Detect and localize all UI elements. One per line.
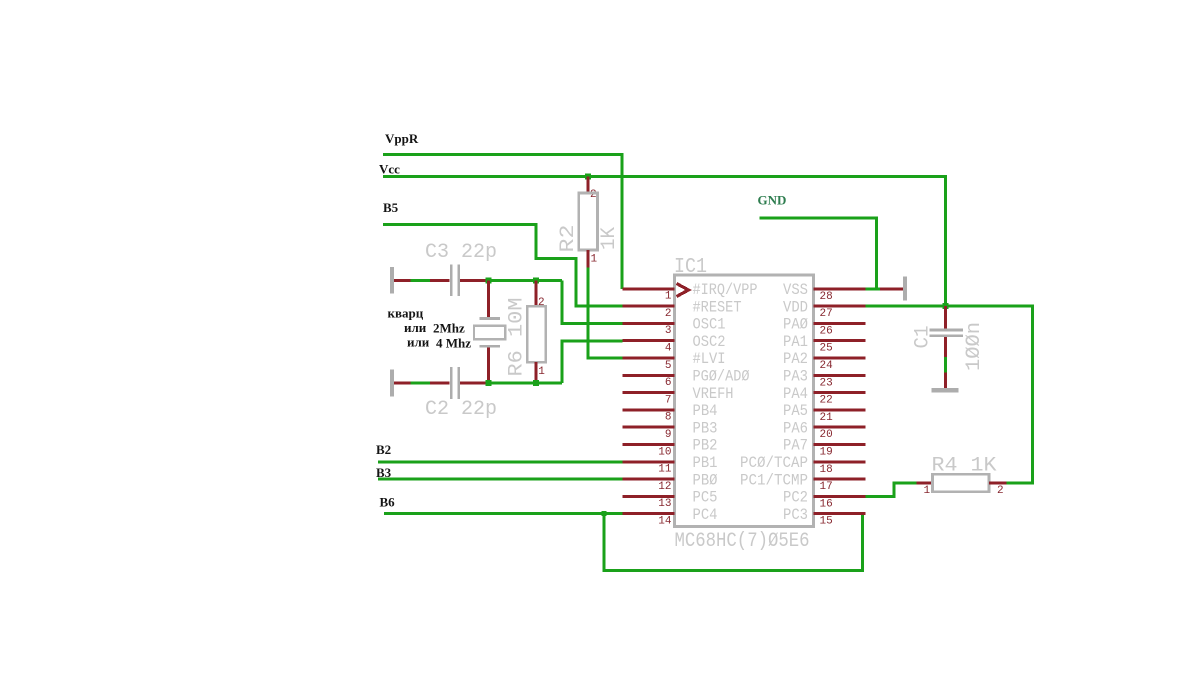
- svg-text:11: 11: [658, 464, 672, 476]
- svg-text:10: 10: [658, 446, 671, 458]
- R6 pin 2 stub: [535, 280, 538, 307]
- C2 pin 2 lead: [460, 382, 488, 385]
- svg-text:1: 1: [591, 254, 598, 266]
- C3 plates: [450, 265, 453, 297]
- IC1 pin 25 PA1: [783, 333, 866, 355]
- IC1 body: [675, 275, 814, 527]
- IC IC1: [674, 256, 814, 553]
- svg-text:R2: R2: [557, 225, 580, 253]
- junction top node C3/crystal: [486, 277, 492, 283]
- svg-text:24: 24: [820, 360, 834, 372]
- svg-text:PC1/TCMP: PC1/TCMP: [740, 471, 808, 489]
- C3 pin 1 lead: [430, 279, 450, 282]
- text crystal note: [388, 306, 472, 351]
- svg-text:B6: B6: [380, 495, 396, 510]
- IC1 pin 9 PB3: [623, 419, 718, 441]
- junction bottom node C2/crystal: [486, 380, 492, 386]
- wire net Vcc: [383, 177, 946, 306]
- svg-text:2: 2: [997, 485, 1004, 497]
- junction B6 tee: [601, 511, 606, 516]
- wire net B3 to PB0: [378, 478, 623, 481]
- resistor R2: [557, 177, 621, 268]
- svg-text:C1: C1: [912, 326, 935, 349]
- R4 pin 2 lead: [989, 482, 1007, 485]
- svg-text:5: 5: [665, 360, 672, 372]
- IC1 pin 21 PA5: [783, 402, 866, 424]
- junction Vcc/VDD/C1: [943, 303, 949, 309]
- svg-text:19: 19: [820, 447, 833, 459]
- IC1 pin 7 VREFH: [623, 385, 734, 407]
- IC1 pin 16 PC2: [783, 489, 866, 511]
- svg-text:PA1: PA1: [783, 333, 808, 351]
- svg-text:25: 25: [820, 343, 833, 355]
- IC1 pin 1 clock mark: [677, 284, 689, 297]
- svg-text:VppR: VppR: [385, 131, 419, 146]
- svg-text:2: 2: [665, 308, 672, 320]
- svg-text:6: 6: [665, 377, 672, 389]
- svg-text:PAØ: PAØ: [783, 316, 808, 334]
- capacitor C1: [912, 306, 987, 371]
- R6 pin 1 stub: [535, 362, 538, 383]
- crystal bottom lead: [487, 348, 490, 384]
- svg-text:B5: B5: [383, 200, 399, 215]
- svg-text:PB2: PB2: [693, 437, 718, 455]
- IC1 pin 15 PC3: [783, 506, 866, 528]
- svg-text:PGØ/ADØ: PGØ/ADØ: [693, 368, 750, 386]
- wire PC2 to R4: [866, 483, 917, 496]
- svg-text:PBØ: PBØ: [693, 471, 718, 489]
- svg-text:R4 1K: R4 1K: [932, 455, 997, 478]
- svg-text:26: 26: [820, 325, 833, 337]
- IC1 pin 26 PA&#216;: [783, 316, 866, 338]
- svg-text:22: 22: [820, 395, 833, 407]
- R4 pin 1 lead: [917, 482, 933, 485]
- svg-text:Vcc: Vcc: [379, 162, 400, 177]
- svg-text:PB4: PB4: [693, 402, 718, 420]
- svg-text:15: 15: [820, 516, 833, 528]
- wire net VppR: [383, 155, 622, 290]
- svg-text:PA4: PA4: [783, 385, 808, 403]
- svg-text:VSS: VSS: [783, 281, 808, 299]
- svg-text:28: 28: [820, 291, 833, 303]
- svg-text:или: или: [404, 320, 427, 335]
- crystal body: [474, 326, 505, 340]
- IC1 pin 11 PB1: [623, 454, 718, 476]
- svg-text:20: 20: [820, 429, 833, 441]
- C1 plates: [930, 329, 964, 332]
- wire net B6 to PC4: [384, 512, 623, 515]
- wire net B5 to #RESET: [383, 225, 623, 307]
- svg-text:1: 1: [538, 366, 545, 378]
- IC1 pin 10 PB2: [623, 437, 718, 459]
- R2 pin 2 stub: [587, 177, 590, 194]
- svg-text:PA3: PA3: [783, 368, 808, 386]
- svg-text:PC5: PC5: [693, 489, 718, 507]
- svg-text:2Mhz: 2Mhz: [433, 321, 465, 336]
- IC1 pin 6 PG&#216;/AD&#216;: [623, 368, 750, 390]
- svg-text:4: 4: [665, 343, 672, 355]
- svg-text:14: 14: [658, 516, 672, 528]
- resistor R4: [917, 455, 1007, 498]
- junction bottom node R6: [533, 380, 539, 386]
- svg-text:12: 12: [658, 481, 671, 493]
- wire net B2 to PB1: [378, 461, 623, 464]
- C1 pin 2 lead: [944, 337, 947, 357]
- IC1 pin 17 PC1/TCMP: [740, 471, 866, 493]
- svg-text:кварц: кварц: [388, 306, 424, 321]
- IC1 pin 2 #RESET: [623, 298, 742, 320]
- svg-text:21: 21: [820, 412, 834, 424]
- svg-text:PA6: PA6: [783, 419, 808, 437]
- wire C1 to gnd: [944, 357, 947, 373]
- ground symbol bottom-left: [390, 370, 411, 397]
- svg-text:7: 7: [665, 394, 672, 406]
- svg-text:PB3: PB3: [693, 419, 718, 437]
- svg-text:17: 17: [820, 481, 833, 493]
- IC1 pin 22 PA4: [783, 385, 866, 407]
- svg-text:1: 1: [665, 291, 672, 303]
- C2 pin 1 lead: [430, 382, 450, 385]
- wire net GND: [760, 218, 877, 289]
- svg-text:9: 9: [665, 429, 672, 441]
- IC1 pin 19 PA7: [783, 437, 866, 459]
- svg-text:3: 3: [665, 325, 672, 337]
- IC1 pin 5 #LVI: [623, 350, 726, 372]
- wire gnd to C2: [411, 382, 431, 385]
- svg-text:или: или: [407, 335, 430, 350]
- IC1 pin 28 VSS: [783, 281, 866, 303]
- R6 body: [527, 306, 545, 362]
- svg-text:PCØ/TCAP: PCØ/TCAP: [740, 454, 808, 472]
- R4 body: [933, 474, 990, 492]
- IC1 pin 3 OSC1: [623, 316, 726, 338]
- svg-text:OSC1: OSC1: [693, 316, 726, 334]
- svg-text:IC1: IC1: [674, 256, 707, 279]
- crystal bottom plate: [479, 345, 499, 348]
- capacitor C3: [425, 241, 497, 296]
- svg-text:18: 18: [820, 464, 833, 476]
- IC1 pin 14 PC4: [623, 506, 718, 528]
- resistor R6: [506, 280, 546, 383]
- IC1 pin 27 VDD: [783, 298, 866, 320]
- svg-text:23: 23: [820, 377, 833, 389]
- svg-text:C3 22p: C3 22p: [425, 241, 497, 264]
- svg-text:#RESET: #RESET: [693, 298, 742, 316]
- crystal: [474, 280, 505, 383]
- svg-text:8: 8: [665, 412, 672, 424]
- svg-text:VDD: VDD: [783, 298, 808, 316]
- svg-text:PA7: PA7: [783, 437, 808, 455]
- wire R2 pin1 to #LVI: [588, 268, 622, 358]
- IC1 pin 4 OSC2: [623, 333, 726, 355]
- C3 pin 2 lead: [460, 279, 488, 282]
- svg-text:VREFH: VREFH: [693, 385, 734, 403]
- wire OSC2: [562, 341, 623, 383]
- svg-text:13: 13: [658, 498, 671, 510]
- R2 pin 1 stub: [587, 250, 590, 268]
- svg-text:PC4: PC4: [693, 506, 718, 524]
- svg-text:27: 27: [820, 308, 833, 320]
- svg-text:OSC2: OSC2: [693, 333, 726, 351]
- svg-text:PA2: PA2: [783, 350, 808, 368]
- capacitor C2: [425, 367, 497, 421]
- R2 body: [579, 193, 598, 250]
- svg-text:1ØØn: 1ØØn: [963, 322, 986, 371]
- svg-text:PB1: PB1: [693, 454, 718, 472]
- svg-text:PC2: PC2: [783, 489, 808, 507]
- svg-text:PC3: PC3: [783, 506, 808, 524]
- C1 pin 1 lead: [944, 306, 947, 329]
- wire crystal top node: [488, 279, 563, 282]
- svg-text:GND: GND: [758, 193, 787, 208]
- C2 plates: [450, 367, 453, 399]
- svg-text:4 Mhz: 4 Mhz: [436, 336, 471, 351]
- ground symbol below C1: [932, 373, 959, 393]
- crystal top lead: [487, 280, 490, 318]
- svg-text:C2 22p: C2 22p: [425, 398, 497, 421]
- wire B6 loop to PC3: [604, 514, 863, 571]
- IC1 pin 8 PB4: [623, 402, 718, 424]
- svg-text:1: 1: [924, 485, 931, 497]
- wire GND to VSS: [866, 288, 881, 291]
- svg-text:PA5: PA5: [783, 402, 808, 420]
- svg-text:R6 10M: R6 10M: [506, 298, 529, 377]
- IC1 pin 20 PA6: [783, 419, 866, 441]
- svg-text:2: 2: [590, 189, 597, 201]
- IC1 pin 13 PC5: [623, 489, 718, 511]
- IC1 pin 18 PC&#216;/TCAP: [740, 454, 866, 476]
- svg-text:B2: B2: [376, 442, 391, 457]
- wire VDD to Vcc node and R4: [866, 306, 1033, 483]
- wire OSC1: [562, 280, 623, 323]
- IC1 pin 1 #IRQ/VPP: [623, 281, 758, 303]
- IC1 pin 23 PA3: [783, 368, 866, 390]
- junction top node R6: [533, 277, 539, 283]
- IC1 pin 24 PA2: [783, 350, 866, 372]
- svg-text:16: 16: [820, 498, 833, 510]
- IC1 pin 12 PB&#216;: [623, 471, 718, 493]
- wire crystal bottom node: [488, 382, 563, 385]
- wire gnd to C3: [411, 279, 431, 282]
- svg-text:1K: 1K: [598, 227, 621, 250]
- crystal top plate: [479, 317, 499, 320]
- svg-text:#LVI: #LVI: [693, 350, 726, 368]
- supply GND symbol right: [880, 277, 907, 301]
- svg-text:#IRQ/VPP: #IRQ/VPP: [693, 281, 758, 299]
- svg-text:MC68HC(7)Ø5E6: MC68HC(7)Ø5E6: [675, 530, 810, 553]
- ground symbol top-left: [390, 267, 411, 294]
- junction Vcc/R2: [585, 174, 591, 180]
